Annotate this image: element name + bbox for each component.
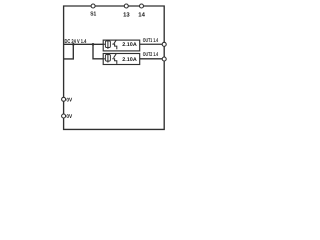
svg-text:OUT1 1.4: OUT1 1.4 [143,38,158,44]
wire: channel 2 output [140,58,165,60]
svg-text:13: 13 [123,11,130,18]
fuse module F2 (channel 2 box) [103,54,140,65]
switch Q2 blade [114,54,117,58]
node: junction dot 1 [72,43,75,46]
fuse module F1 (channel 1 box) [103,40,140,51]
terminal 0V (upper) [62,97,66,101]
wire: DC 24 V bus [64,43,104,45]
fuse F2 body [105,55,110,62]
svg-text:0V: 0V [66,97,72,103]
wire: module outline (top/right/bottom/left rails) [64,6,165,129]
fuse F2 element line [107,53,109,62]
svg-text:0V: 0V [66,114,72,120]
switch Q1 blade [114,40,117,44]
wire: channel 2 inlet stub [103,58,105,60]
terminal OUT2 [162,57,166,61]
terminal OUT1 [162,42,166,46]
wire: channel 1 inlet stub [103,43,105,45]
wire: drop to channel 2 [93,44,103,59]
node: junction dot 2 [92,43,95,46]
wire: drop to left rail [64,44,74,59]
terminal S1 [91,4,95,8]
terminal 14 [140,4,144,8]
svg-text:14: 14 [138,11,145,18]
svg-text:OUT2 1.4: OUT2 1.4 [143,52,158,58]
switch Q2 step contact [112,59,117,64]
fuse F1 body [105,41,110,48]
terminal 13 [124,4,128,8]
svg-text:2.10A: 2.10A [122,57,137,63]
wire: channel 1 output [140,43,165,45]
svg-text:DC 24 V 1.4: DC 24 V 1.4 [65,39,87,45]
switch Q1 step contact [112,44,117,49]
fuse F1 element line [107,40,109,49]
terminal 0V (lower) [62,114,66,118]
svg-text:2.10A: 2.10A [122,42,137,48]
svg-text:S1: S1 [90,11,97,18]
